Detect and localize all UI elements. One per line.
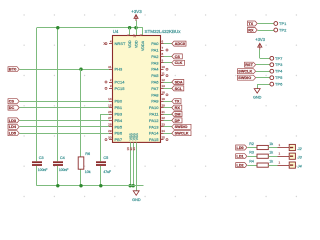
svg-text:31: 31 xyxy=(108,65,112,69)
svg-text:TP2: TP2 xyxy=(279,28,287,33)
svg-text:100nF: 100nF xyxy=(59,168,69,172)
ground GND (bottom) xyxy=(132,186,141,202)
resistor R6 xyxy=(78,152,91,174)
pin 17 VDD xyxy=(132,34,138,48)
pin 6 PA0 (right) xyxy=(151,39,163,46)
svg-text:J2: J2 xyxy=(297,146,303,151)
wire PA7 net xyxy=(164,88,175,90)
pin 33 VSS + wire xyxy=(132,133,139,186)
svg-text:19: 19 xyxy=(162,97,166,101)
label LD1 xyxy=(236,154,247,159)
testpoint TP6 xyxy=(270,82,283,87)
pin 32 VSS + wire xyxy=(129,133,136,186)
wire R3 to J3 xyxy=(268,156,277,158)
svg-text:10k: 10k xyxy=(85,170,91,174)
svg-text:22: 22 xyxy=(162,116,166,120)
svg-text:11: 11 xyxy=(162,71,165,75)
svg-text:RX: RX xyxy=(175,106,181,110)
wire DC net xyxy=(20,107,109,109)
capacitor C3 xyxy=(32,156,47,172)
svg-text:12: 12 xyxy=(162,78,166,82)
testpoint TP1 xyxy=(274,21,287,26)
wire BOOT0 net xyxy=(20,69,109,71)
wire PB3 to C5 xyxy=(101,114,110,186)
capacitor C4 xyxy=(53,156,69,172)
svg-text:1: 1 xyxy=(279,143,281,147)
svg-text:TX: TX xyxy=(175,100,180,104)
testpoint TP4 xyxy=(270,69,283,74)
svg-text:TP1: TP1 xyxy=(279,21,287,26)
pin 26 PB3 (left) xyxy=(108,110,123,117)
svg-text:8: 8 xyxy=(162,52,164,56)
svg-text:SWDIO: SWDIO xyxy=(175,125,188,129)
svg-text:PB7: PB7 xyxy=(115,137,123,142)
svg-text:PH3: PH3 xyxy=(115,67,124,72)
svg-text:ADC0: ADC0 xyxy=(175,42,185,46)
svg-text:PA12: PA12 xyxy=(149,118,159,123)
svg-text:SDA: SDA xyxy=(175,80,183,84)
svg-text:24: 24 xyxy=(162,129,166,133)
wire TX-TP1 xyxy=(258,23,274,25)
svg-text:9: 9 xyxy=(162,59,164,63)
svg-text:4: 4 xyxy=(110,39,112,43)
svg-text:STM32L432KBUx: STM32L432KBUx xyxy=(145,29,182,34)
pin 1 VDD xyxy=(126,34,132,48)
svg-text:R3: R3 xyxy=(249,151,254,155)
pin 2 PC14 (left) xyxy=(109,78,125,85)
svg-text:PB3: PB3 xyxy=(115,112,123,117)
wire PA0 net xyxy=(164,43,175,45)
pin 4 NRST (left) xyxy=(109,39,126,46)
svg-text:GND: GND xyxy=(132,198,141,202)
wire PA10 net xyxy=(164,107,175,109)
wire LD4 net xyxy=(20,126,109,128)
label DC xyxy=(8,105,19,110)
svg-text:TX: TX xyxy=(248,22,253,26)
junction top rail at C4 xyxy=(56,26,59,29)
label CS xyxy=(8,99,19,104)
label CS xyxy=(172,54,183,59)
svg-text:J4: J4 xyxy=(297,163,303,168)
label DP xyxy=(172,118,182,123)
label BT0 xyxy=(8,67,19,72)
wire C3 feed vertical xyxy=(36,28,38,186)
wire VDD1 drop xyxy=(129,28,131,36)
svg-text:CLK: CLK xyxy=(175,61,183,65)
svg-text:TP4: TP4 xyxy=(275,69,283,74)
pin 23 PA13 (right) xyxy=(149,123,165,130)
svg-text:BT0: BT0 xyxy=(9,67,17,72)
svg-text:7: 7 xyxy=(162,46,164,50)
svg-text:PA6: PA6 xyxy=(151,80,159,85)
svg-text:30: 30 xyxy=(108,135,112,139)
svg-text:R6: R6 xyxy=(85,152,90,156)
pin 28 PB5 (left) xyxy=(108,123,123,130)
junction rail R6 xyxy=(79,184,82,187)
svg-text:PA10: PA10 xyxy=(149,105,159,110)
svg-text:PA13: PA13 xyxy=(149,124,159,129)
svg-text:PA14: PA14 xyxy=(149,131,159,136)
svg-text:PC14: PC14 xyxy=(115,80,126,85)
wire SWCLK-TP4 xyxy=(256,71,270,73)
svg-text:TP7: TP7 xyxy=(275,56,283,61)
svg-text:CS: CS xyxy=(9,100,15,104)
wire +3V3 to TP7 xyxy=(260,50,270,59)
wire CS net xyxy=(20,101,109,103)
svg-text:PA11: PA11 xyxy=(149,112,159,117)
no-connect PC15 xyxy=(105,87,107,89)
svg-text:SWCLK: SWCLK xyxy=(175,132,189,136)
svg-text:17: 17 xyxy=(132,34,136,38)
pin 8 PA2 (right) xyxy=(151,52,163,59)
svg-text:+3V3: +3V3 xyxy=(131,9,142,14)
label ADC0 xyxy=(172,41,186,46)
svg-text:C5: C5 xyxy=(103,156,108,160)
label SDA xyxy=(172,80,184,85)
label SCL xyxy=(172,86,184,91)
testpoint TP3 xyxy=(270,62,283,67)
pin 5 VDDA xyxy=(139,34,145,51)
junction VSS2 rail xyxy=(132,184,135,187)
svg-text:LD1: LD1 xyxy=(237,155,244,159)
label RX xyxy=(172,105,182,110)
wire PA13 net xyxy=(164,126,175,128)
svg-text:RST: RST xyxy=(245,63,253,67)
no-connect PA8 xyxy=(166,94,168,96)
svg-text:PB1: PB1 xyxy=(115,105,123,110)
pin 27 PB4 (left) xyxy=(108,116,123,123)
connector J2 xyxy=(278,143,303,151)
wire VDD2 drop xyxy=(136,28,138,36)
wire +3V3 top rail xyxy=(37,27,143,29)
svg-text:29: 29 xyxy=(108,129,112,133)
no-connect PA4 xyxy=(166,68,168,70)
svg-text:GND: GND xyxy=(253,95,262,99)
power +3V3 (top) xyxy=(131,9,142,28)
no-connect PC14 xyxy=(105,81,107,83)
svg-text:TP6: TP6 xyxy=(275,82,283,87)
svg-text:20: 20 xyxy=(162,103,166,107)
svg-text:PA1: PA1 xyxy=(151,48,159,53)
label SWCLK xyxy=(172,131,191,136)
svg-text:13: 13 xyxy=(162,84,166,88)
svg-text:PA4: PA4 xyxy=(151,67,159,72)
svg-text:47uF: 47uF xyxy=(103,170,111,174)
junction R6/PH3 xyxy=(79,68,82,71)
pin 19 PA9 (right) xyxy=(151,97,165,104)
svg-text:VDD: VDD xyxy=(134,40,138,48)
svg-text:PB6: PB6 xyxy=(115,131,123,136)
svg-text:DM: DM xyxy=(175,112,181,116)
connector J3 xyxy=(278,152,303,160)
label LD4 xyxy=(8,124,19,129)
pin 21 PA11 (right) xyxy=(149,110,165,117)
MCU reference U4 xyxy=(113,29,119,34)
pin 22 PA12 (right) xyxy=(149,116,165,123)
svg-text:SWCLK: SWCLK xyxy=(238,70,252,74)
pin 31 PH3 (left) xyxy=(108,65,123,72)
svg-text:DP: DP xyxy=(175,119,181,123)
pin 24 PA14 (right) xyxy=(149,129,165,136)
label SWDIO (tp) xyxy=(238,75,256,80)
svg-text:PB0: PB0 xyxy=(115,99,123,104)
wire VDDA drop xyxy=(142,28,144,36)
pin 29 PB6 (left) xyxy=(108,129,123,136)
label RX (TP2) xyxy=(248,28,258,33)
svg-text:LD0: LD0 xyxy=(237,146,244,150)
no-connect PA15 xyxy=(166,139,168,141)
wire PA3 net xyxy=(164,62,175,64)
power +3V3 (testpoints) xyxy=(255,37,265,49)
label LD2 xyxy=(236,163,247,168)
svg-text:C3: C3 xyxy=(39,156,44,160)
wire R2 to J2 xyxy=(268,147,277,149)
testpoint TP7 xyxy=(270,56,283,61)
pin 13 PA7 (right) xyxy=(151,84,165,91)
testpoint TP2 xyxy=(274,28,287,33)
wire R6 drop xyxy=(80,69,82,186)
svg-text:PB5: PB5 xyxy=(115,124,123,129)
pin 3 PC15 (left) xyxy=(109,84,125,91)
label CLK xyxy=(172,60,185,65)
svg-text:PA8: PA8 xyxy=(151,92,159,97)
junction top rail VDD1 xyxy=(128,26,131,29)
label RST xyxy=(245,62,256,67)
svg-text:PA5: PA5 xyxy=(151,73,159,78)
wire LD5 net xyxy=(20,133,109,135)
svg-text:SWDIO: SWDIO xyxy=(238,76,251,80)
resistor R4 xyxy=(249,159,273,167)
svg-text:PB4: PB4 xyxy=(115,118,123,123)
svg-text:R2: R2 xyxy=(249,142,254,146)
wire PA2 net xyxy=(164,56,175,58)
label TX (TP1) xyxy=(248,21,258,26)
label LD3 xyxy=(8,118,19,123)
wire RST-TP3 xyxy=(256,64,270,66)
wire LD1 to R3 xyxy=(247,156,257,158)
svg-text:33: 33 xyxy=(132,147,136,151)
wire PA12 net xyxy=(164,120,175,122)
junction top rail VDD2 xyxy=(134,26,137,29)
svg-text:100nF: 100nF xyxy=(38,168,48,172)
svg-text:NRST: NRST xyxy=(115,41,126,46)
svg-text:PA2: PA2 xyxy=(151,54,159,59)
svg-text:PA0: PA0 xyxy=(151,41,159,46)
no-connect PA1 xyxy=(166,49,168,51)
svg-text:VDDA: VDDA xyxy=(141,40,145,51)
label DM xyxy=(172,112,182,117)
svg-text:LD4: LD4 xyxy=(9,125,17,129)
wire GND-TP6 xyxy=(257,84,270,89)
wire LD0 to R2 xyxy=(247,147,257,149)
svg-text:RX: RX xyxy=(248,28,254,32)
svg-text:LD5: LD5 xyxy=(9,132,16,136)
label TX xyxy=(172,99,181,104)
svg-text:PA7: PA7 xyxy=(151,86,159,91)
no-connect NRST xyxy=(104,42,107,44)
junction VSS1 rail xyxy=(129,184,132,187)
connector J4 xyxy=(278,161,303,169)
svg-text:VSS: VSS xyxy=(135,133,139,141)
label SWDIO xyxy=(172,124,191,129)
svg-text:SCL: SCL xyxy=(175,87,183,91)
wire LD2 to R4 xyxy=(247,165,257,167)
svg-text:TP3: TP3 xyxy=(275,62,283,67)
svg-text:25: 25 xyxy=(162,135,166,139)
svg-text:2: 2 xyxy=(110,78,112,82)
label SWCLK (tp) xyxy=(238,69,256,74)
wire R4 to J4 xyxy=(268,165,277,167)
wire C4 feed vertical xyxy=(57,28,59,186)
capacitor C5 xyxy=(96,156,111,174)
label LD5 xyxy=(8,131,19,136)
svg-text:14: 14 xyxy=(108,97,112,101)
resistor R2 xyxy=(249,142,273,150)
ground GND (testpoints) xyxy=(253,89,262,100)
wire PA6 net xyxy=(164,82,175,84)
MCU value STM32L432KBUx xyxy=(145,29,182,34)
pin 12 PA6 (right) xyxy=(151,78,165,85)
svg-text:3: 3 xyxy=(110,84,112,88)
svg-text:LD2: LD2 xyxy=(237,164,244,168)
svg-text:TP5: TP5 xyxy=(275,75,283,80)
svg-text:PC15: PC15 xyxy=(115,86,126,91)
no-connect PB7 xyxy=(105,139,107,141)
svg-text:1k: 1k xyxy=(269,159,273,163)
pin 9 PA3 (right) xyxy=(151,59,163,66)
pin 25 PA15 (right) xyxy=(149,135,165,142)
svg-text:27: 27 xyxy=(108,116,112,120)
pin 18 PA8 (right) xyxy=(151,91,165,98)
svg-text:U4: U4 xyxy=(113,29,119,34)
svg-text:C4: C4 xyxy=(60,156,65,160)
svg-text:26: 26 xyxy=(108,110,112,114)
svg-text:PA9: PA9 xyxy=(151,99,159,104)
label LD0 xyxy=(236,145,247,150)
pin 15 PB1 (left) xyxy=(108,103,123,110)
pin 11 PA5 (right) xyxy=(151,71,165,78)
svg-text:1: 1 xyxy=(279,161,281,165)
junction rail C5 xyxy=(99,184,102,187)
testpoint TP5 xyxy=(270,75,283,80)
svg-text:DC: DC xyxy=(9,106,15,110)
pin 16 VSS + wire xyxy=(126,133,133,186)
svg-text:18: 18 xyxy=(162,91,166,95)
resistor R3 xyxy=(249,151,273,159)
svg-text:6: 6 xyxy=(162,39,164,43)
MCU U4 body xyxy=(113,36,161,143)
wire GND bottom rail xyxy=(37,185,144,187)
wire PA9 net xyxy=(164,101,175,103)
no-connect PA5 xyxy=(166,75,168,77)
svg-text:R4: R4 xyxy=(249,159,254,163)
wire RX-TP2 xyxy=(258,30,274,32)
svg-text:LD3: LD3 xyxy=(9,119,16,123)
svg-text:1k: 1k xyxy=(269,142,273,146)
svg-text:+3V3: +3V3 xyxy=(255,37,265,42)
pin 30 PB7 (left) xyxy=(108,135,123,142)
wire SWDIO-TP5 xyxy=(256,77,270,79)
svg-text:VDD: VDD xyxy=(128,40,132,48)
wire LD3 net xyxy=(20,120,109,122)
svg-text:PA3: PA3 xyxy=(151,60,159,65)
sheet grid dots xyxy=(23,14,297,197)
pin 10 PA4 (right) xyxy=(151,65,165,72)
svg-text:1: 1 xyxy=(279,152,281,156)
svg-text:15: 15 xyxy=(108,103,112,107)
svg-text:CS: CS xyxy=(175,55,181,59)
pin 14 PB0 (left) xyxy=(108,97,123,104)
pin 7 PA1 (right) xyxy=(151,46,163,53)
svg-text:1k: 1k xyxy=(269,151,273,155)
pin 20 PA10 (right) xyxy=(149,103,165,110)
wire PA11 net xyxy=(164,114,175,116)
wire PA14 net xyxy=(164,133,175,135)
svg-text:PA15: PA15 xyxy=(149,137,159,142)
junction rail C4 xyxy=(56,184,59,187)
svg-text:21: 21 xyxy=(162,110,166,114)
svg-text:J3: J3 xyxy=(297,155,303,160)
svg-text:10: 10 xyxy=(162,65,166,69)
